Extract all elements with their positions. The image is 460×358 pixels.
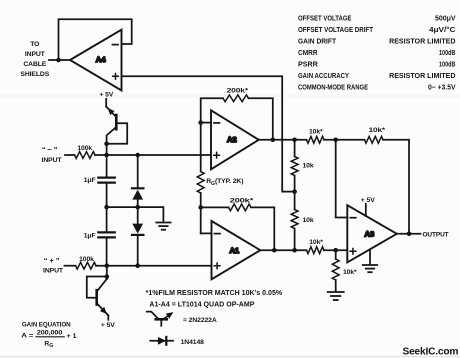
- svg-text:200,000: 200,000: [37, 330, 63, 337]
- label TO INPUT CABLE SHIELDS: [20, 41, 49, 78]
- diode D1 1N4148 (pointing up): [132, 155, 143, 207]
- wire A4 noninverting input to divider midpoint: [122, 76, 295, 191]
- gain equation: [21, 321, 77, 348]
- +5V supply label Q1: [99, 91, 113, 98]
- legend diode 1N4148 symbol: [150, 337, 173, 345]
- svg-text:100dB: 100dB: [439, 48, 456, 57]
- node plus line / Q2 / C2: [105, 263, 110, 268]
- wire into A3 +: [324, 249, 347, 251]
- svg-text:INPUT: INPUT: [43, 268, 64, 275]
- label 1N4148: [181, 339, 205, 346]
- fraction bar: [36, 336, 64, 338]
- svg-text:CABLE: CABLE: [23, 61, 46, 68]
- resistor 200k* (A1 feedback): [201, 198, 275, 251]
- svg-text:PSRR: PSRR: [298, 60, 319, 69]
- resistor 100k (minus input): [65, 145, 95, 158]
- node diode midpoint: [135, 205, 140, 210]
- note LT1014: [149, 302, 254, 309]
- svg-text:“+”: “+”: [44, 256, 62, 265]
- svg-text:10k*: 10k*: [369, 127, 386, 134]
- watermark SeekIC.com: [403, 346, 459, 357]
- svg-text:1μF: 1μF: [84, 232, 96, 239]
- wire cap midpoint to diode midpoint: [107, 206, 138, 208]
- ground (A3): [363, 265, 377, 272]
- wire to feedback node: [324, 139, 365, 141]
- label OUTPUT: [423, 232, 450, 239]
- wire A3 output: [397, 233, 421, 235]
- svg-text:RESISTOR LIMITED: RESISTOR LIMITED: [389, 71, 455, 80]
- svg-text:SeekIC.com: SeekIC.com: [403, 346, 459, 357]
- op-amp A1: [212, 221, 261, 279]
- node A4 output junction: [56, 58, 61, 63]
- svg-text:200k*: 200k*: [227, 87, 249, 94]
- svg-text:A4: A4: [96, 55, 106, 64]
- svg-text:100dB: 100dB: [439, 60, 456, 69]
- spec table: [298, 14, 456, 92]
- svg-text:200k*: 200k*: [230, 198, 254, 205]
- label "-" INPUT: [42, 145, 63, 164]
- wire A3 ground pin: [369, 250, 371, 265]
- wire minus input line to A2 +: [95, 154, 211, 156]
- svg-text:+ 5V: + 5V: [99, 91, 113, 98]
- node A3 inverting branch: [333, 138, 338, 143]
- svg-text:10k*: 10k*: [309, 239, 323, 246]
- wire A1 output: [260, 249, 306, 251]
- wire A2 inverting stub: [201, 122, 211, 124]
- svg-text:0− +3.5V: 0− +3.5V: [428, 82, 456, 91]
- svg-text:“−”: “−”: [42, 145, 60, 154]
- svg-text:INPUT: INPUT: [42, 157, 63, 164]
- svg-text:A3: A3: [365, 230, 375, 239]
- svg-text:INPUT: INPUT: [25, 51, 46, 58]
- legend transistor 2N2222A symbol: [147, 312, 174, 326]
- svg-text:GAIN DRIFT: GAIN DRIFT: [298, 37, 337, 46]
- wire A4 feedback loop: [59, 19, 132, 60]
- node A2 inverting input: [198, 120, 203, 125]
- label "+" INPUT: [43, 256, 64, 275]
- svg-text:1μF: 1μF: [84, 177, 96, 184]
- ground (clamp reference): [156, 223, 170, 230]
- node minus line / D1: [135, 153, 140, 158]
- capacitor C1 1uF: [84, 155, 115, 207]
- svg-text:RESISTOR LIMITED: RESISTOR LIMITED: [389, 37, 455, 46]
- node A1 feedback / RG junction: [198, 205, 203, 233]
- resistor 10k (divider upper): [291, 140, 314, 192]
- svg-text:GAIN ACCURACY: GAIN ACCURACY: [298, 71, 349, 80]
- node A1 feedback/output: [272, 248, 277, 253]
- svg-text:OFFSET VOLTAGE DRIFT: OFFSET VOLTAGE DRIFT: [298, 25, 374, 34]
- svg-text:OUTPUT: OUTPUT: [423, 232, 450, 239]
- svg-text:10k*: 10k*: [343, 269, 357, 276]
- resistor RG (TYP. 2K): [197, 123, 243, 208]
- svg-text:100k: 100k: [79, 256, 94, 263]
- svg-text:A =: A =: [21, 333, 33, 340]
- svg-text:TO: TO: [30, 41, 39, 48]
- svg-text:10k: 10k: [303, 217, 314, 224]
- resistor 10k* (shunt to ground): [332, 250, 357, 291]
- node capacitor midpoint: [104, 205, 109, 210]
- svg-text:COMMON-MODE RANGE: COMMON-MODE RANGE: [298, 82, 368, 91]
- wire A4 output to shields: [49, 59, 70, 61]
- svg-text:500μV: 500μV: [435, 14, 456, 23]
- capacitor C2 1uF: [84, 207, 115, 266]
- +5V supply label A3: [361, 197, 376, 204]
- label = 2N2222A: [183, 317, 217, 324]
- svg-text:A2: A2: [227, 135, 237, 144]
- svg-text:GAIN EQUATION: GAIN EQUATION: [22, 321, 71, 328]
- node output: [407, 232, 412, 237]
- transistor Q1 2N2222A: [106, 99, 127, 144]
- svg-text:*1%FILM RESISTOR MATCH 10K’s 0: *1%FILM RESISTOR MATCH 10K’s 0.05%: [146, 290, 283, 297]
- wire plus input line to A1 +: [96, 265, 212, 267]
- svg-text:A1-A4 = LT1014 QUAD OP-AMP: A1-A4 = LT1014 QUAD OP-AMP: [149, 302, 254, 309]
- node plus line / D2: [135, 263, 140, 268]
- svg-text:100k: 100k: [77, 145, 92, 152]
- wire diode midpoint to ground: [138, 207, 164, 222]
- node minus line / C1 / Q1: [104, 153, 109, 158]
- +5V supply label Q2: [101, 322, 115, 329]
- svg-text:+ 1: + 1: [67, 333, 77, 340]
- transistor Q2 2N2222A: [87, 266, 109, 320]
- resistor 10k* (A3 feedback): [365, 127, 386, 143]
- op-amp A2: [211, 110, 259, 169]
- node divider top: [292, 138, 297, 143]
- node A3 + / shunt: [333, 248, 338, 253]
- wire feedback to output node: [383, 140, 409, 234]
- node A2 feedback/output: [271, 138, 276, 143]
- svg-text:OFFSET VOLTAGE: OFFSET VOLTAGE: [298, 14, 352, 23]
- svg-text:+ 5V: + 5V: [361, 197, 376, 204]
- resistor 200k* (A2 feedback): [201, 87, 273, 139]
- wire A1 inverting stub: [201, 232, 212, 234]
- svg-text:A1: A1: [229, 246, 239, 255]
- op-amp A3: [347, 205, 397, 262]
- svg-text:= 2N2222A: = 2N2222A: [183, 317, 217, 324]
- svg-text:+ 5V: + 5V: [101, 322, 115, 329]
- svg-text:CMRR: CMRR: [298, 48, 318, 57]
- wire A2 output: [259, 139, 307, 141]
- svg-text:RG: RG: [44, 340, 53, 348]
- op-amp A4: [70, 30, 122, 91]
- node divider midpoint: [292, 189, 297, 194]
- svg-text:SHIELDS: SHIELDS: [20, 71, 49, 78]
- diode D2 1N4148 (pointing down): [132, 207, 143, 266]
- note film resistor match: [146, 290, 283, 297]
- node divider bottom: [292, 248, 297, 253]
- node Q1 base-collector junction: [104, 142, 109, 156]
- svg-text:RG(TYP. 2K): RG(TYP. 2K): [206, 178, 243, 187]
- ground (shunt): [328, 292, 344, 300]
- wire A3 supply stub: [365, 204, 367, 216]
- node Q2 base-collector junction: [105, 274, 110, 279]
- resistor 10k* (A2 out to A3 inverting): [307, 129, 325, 144]
- resistor 10k (divider lower): [291, 192, 314, 251]
- wire A3 inverting input: [336, 140, 348, 218]
- svg-text:4μV/°C: 4μV/°C: [429, 25, 456, 34]
- resistor 10k* (A1 out to A3 +): [307, 239, 325, 254]
- resistor 100k (plus input): [65, 256, 97, 269]
- svg-text:1N4148: 1N4148: [181, 339, 205, 346]
- svg-text:10k: 10k: [303, 162, 314, 169]
- svg-text:10k*: 10k*: [309, 129, 323, 136]
